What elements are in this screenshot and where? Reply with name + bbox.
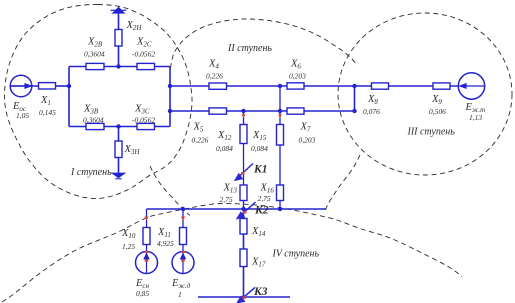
junction merge bar bottom <box>352 109 356 113</box>
resistor X2H <box>115 30 122 47</box>
red tick branch X15 <box>278 114 282 118</box>
source Ezht EMF arrow <box>465 85 485 87</box>
wire branch X15-X16 vertical <box>279 86 281 209</box>
resistor X17 <box>240 249 247 267</box>
svg-text:0,3604: 0,3604 <box>83 116 104 125</box>
svg-text:IV ступень: IV ступень <box>272 249 320 260</box>
svg-text:К2: К2 <box>254 205 269 217</box>
junction bottom rail mid <box>116 124 120 128</box>
resistor X16 <box>277 185 284 201</box>
junction bus x243 K2 <box>241 207 245 211</box>
fault arrow K3 <box>241 288 255 300</box>
wire branch X12-X13 vertical <box>243 111 245 209</box>
junction top line x280 <box>278 84 282 88</box>
wire K3 bus <box>198 296 290 298</box>
svg-text:III ступень: III ступень <box>407 127 456 138</box>
junction merge bar top <box>352 84 356 88</box>
wire X2H stem <box>118 12 120 67</box>
X3H bottom arrow <box>113 173 125 177</box>
resistor X3B <box>86 123 104 129</box>
wire source Eoc to X1 <box>10 85 38 87</box>
red tick Ezhd top <box>181 251 185 253</box>
wire X1 to bridge left bar <box>56 85 70 87</box>
resistor X9 <box>433 83 450 89</box>
stage boundary III (dashed oval) <box>338 13 512 175</box>
wire bus K2 <box>147 208 327 210</box>
resistor X8 <box>372 83 389 89</box>
resistor X1 <box>39 83 56 89</box>
svg-text:0,145: 0,145 <box>39 108 56 117</box>
svg-text:0,084: 0,084 <box>216 144 233 153</box>
svg-text:-0,0562: -0,0562 <box>132 50 155 59</box>
junction right bar top <box>168 84 172 88</box>
svg-text:К3: К3 <box>253 286 268 298</box>
resistor X15 <box>277 125 284 146</box>
red tick branch X12 <box>242 114 246 118</box>
junction K3 <box>242 295 246 299</box>
red tick K1 tip <box>241 172 245 174</box>
wire right merge bar <box>354 86 356 111</box>
svg-text:1: 1 <box>178 290 182 299</box>
resistor X3C <box>137 123 155 129</box>
svg-text:0,226: 0,226 <box>192 135 209 144</box>
svg-text:0,3604: 0,3604 <box>84 50 105 59</box>
svg-text:2,75: 2,75 <box>220 195 233 204</box>
red tick K3 tip <box>243 296 247 298</box>
wire bridge bottom rail <box>69 126 170 128</box>
red tick branch X10 <box>144 217 148 221</box>
red tick Esn mid <box>145 260 149 262</box>
svg-text:I ступень: I ступень <box>70 167 112 178</box>
junction right bar bottom <box>168 109 172 113</box>
wire branch X10 <box>146 209 148 252</box>
fault arrow K2 <box>241 202 256 215</box>
svg-text:1,13: 1,13 <box>469 113 482 122</box>
wire branch X11 <box>182 209 184 252</box>
red tick branch X11 <box>181 217 185 221</box>
resistor X2C <box>137 63 155 69</box>
resistor X11 <box>180 228 187 245</box>
stage boundary IV (dashed arc) <box>2 203 462 302</box>
source Esn EMF arrow <box>146 252 148 274</box>
red tick K2 tip <box>243 211 247 213</box>
junction bottom line x280 <box>278 109 282 113</box>
red tick Esn top <box>145 251 149 253</box>
svg-text:4,925: 4,925 <box>157 239 174 248</box>
svg-text:0,076: 0,076 <box>363 107 380 116</box>
source Ezhd EMF arrow <box>182 252 184 274</box>
junction bottom line x243 <box>241 109 245 113</box>
source Eoc EMF arrow <box>10 85 27 87</box>
stage boundary II (dashed oval) <box>171 19 358 68</box>
junction bus x280 <box>278 207 282 211</box>
source Esn circle <box>136 252 158 274</box>
svg-text:II ступень: II ступень <box>227 43 272 54</box>
wire branch X14-X17 <box>243 209 245 297</box>
resistor X5 <box>209 108 227 114</box>
resistor X4 <box>209 83 227 89</box>
wire line to source Ezht <box>355 85 459 87</box>
wire top transmission line <box>170 85 355 87</box>
svg-text:0,203: 0,203 <box>289 72 306 81</box>
resistor X12 <box>240 125 247 144</box>
X2H top arrow <box>113 8 124 14</box>
wire bottom transmission line <box>170 110 355 112</box>
svg-text:0,084: 0,084 <box>251 144 268 153</box>
resistor X2B <box>86 63 104 69</box>
junction bridge input <box>67 84 71 88</box>
resistor X13 <box>240 185 247 201</box>
source Eoc circle <box>10 75 32 97</box>
junction top rail mid <box>116 64 120 68</box>
svg-text:1,05: 1,05 <box>16 111 29 120</box>
junction bus x183 <box>181 207 185 211</box>
wire bridge top rail <box>69 66 170 68</box>
resistor X7 <box>287 108 304 114</box>
wire bridge right bar <box>169 67 171 127</box>
svg-text:0,85: 0,85 <box>136 289 149 298</box>
svg-text:2,75: 2,75 <box>258 194 271 203</box>
wire bridge left bar <box>68 67 70 127</box>
wire X3H stem <box>118 127 120 175</box>
svg-text:1,25: 1,25 <box>122 242 135 251</box>
svg-text:-0,0562: -0,0562 <box>132 116 155 125</box>
source Ezhd circle <box>172 252 194 274</box>
red tick Ezhd mid <box>181 260 185 262</box>
svg-text:0,203: 0,203 <box>299 135 316 144</box>
source Ezht circle <box>458 73 484 99</box>
resistor X14 <box>240 219 247 235</box>
fault arrow K1 <box>239 164 253 177</box>
resistor X6 <box>287 83 304 89</box>
resistor X3H <box>115 141 122 158</box>
svg-text:0,506: 0,506 <box>429 107 446 116</box>
stage boundary I (dashed oval) <box>5 4 193 198</box>
svg-text:К1: К1 <box>253 163 268 175</box>
svg-text:0,226: 0,226 <box>206 72 223 81</box>
resistor X10 <box>143 228 150 245</box>
